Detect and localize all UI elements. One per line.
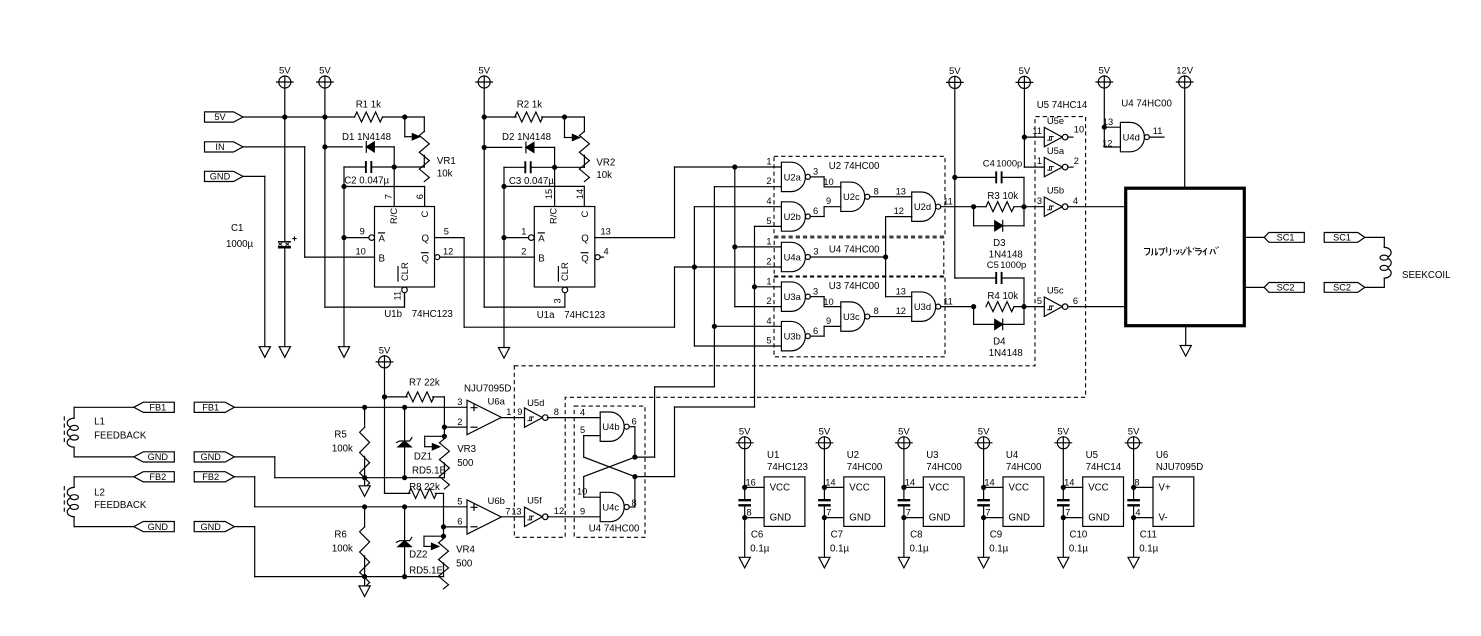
connector GND fb1 — [134, 452, 175, 462]
junction — [282, 114, 287, 119]
svg-text:10: 10 — [577, 487, 587, 497]
svg-text:A: A — [379, 234, 386, 245]
svg-text:SC1: SC1 — [1277, 233, 1295, 243]
wire — [404, 507, 406, 540]
svg-text:11: 11 — [943, 296, 953, 306]
wire — [443, 397, 445, 436]
svg-text:U2: U2 — [847, 450, 859, 461]
svg-text:U5d: U5d — [527, 397, 544, 408]
wire — [824, 486, 843, 488]
svg-text:74HC123: 74HC123 — [412, 309, 453, 320]
svg-text:14: 14 — [905, 478, 915, 488]
wire — [364, 407, 366, 427]
wire — [955, 277, 996, 279]
wire rail1 — [275, 477, 445, 479]
svg-text:14: 14 — [1064, 478, 1074, 488]
svg-text:7: 7 — [505, 507, 510, 517]
svg-text:U5b: U5b — [1047, 185, 1064, 196]
wire — [745, 517, 764, 519]
wire — [904, 486, 923, 488]
wire pin6 — [424, 187, 426, 207]
svg-text:7: 7 — [1065, 508, 1070, 518]
resistor R4 10k — [986, 302, 1014, 312]
zener DZ1 RD5.1E — [397, 438, 412, 447]
junction — [501, 235, 506, 240]
wire — [384, 368, 386, 494]
svg-text:U3d: U3d — [914, 301, 931, 312]
wire CLR — [404, 293, 406, 307]
svg-text:R8 22k: R8 22k — [409, 482, 440, 493]
power 5V — [317, 66, 334, 89]
wire — [983, 487, 985, 500]
nand U4a — [781, 242, 810, 271]
wire — [433, 396, 445, 398]
wire — [744, 518, 746, 558]
junction — [883, 254, 888, 259]
wire — [824, 306, 841, 308]
svg-text:Q: Q — [581, 234, 589, 245]
wire — [1134, 517, 1153, 519]
wire FB2 row — [255, 506, 467, 508]
potentiometer VR1 10k — [419, 131, 429, 181]
svg-text:Q: Q — [422, 253, 429, 264]
wire — [734, 167, 736, 307]
svg-text:2: 2 — [766, 257, 771, 267]
svg-text:2: 2 — [1074, 156, 1079, 166]
svg-text:C: C — [419, 211, 430, 218]
junction — [822, 515, 827, 520]
svg-text:5V: 5V — [978, 426, 990, 437]
inductor L1 — [64, 416, 78, 447]
wire Qbar4 stub — [600, 256, 603, 258]
svg-text:13: 13 — [601, 227, 611, 237]
junction — [981, 485, 986, 490]
wire — [504, 185, 584, 187]
svg-text:3: 3 — [813, 286, 818, 296]
svg-text:8: 8 — [554, 407, 559, 417]
label A bar — [379, 233, 386, 245]
svg-text:VCC: VCC — [929, 482, 949, 493]
wire U4a out — [810, 256, 885, 258]
svg-text:500: 500 — [456, 559, 473, 570]
wire CLR a — [564, 293, 566, 307]
svg-text:FEEDBACK: FEEDBACK — [94, 430, 147, 441]
svg-text:U4b: U4b — [602, 421, 619, 432]
svg-text:5V: 5V — [739, 426, 751, 437]
junction — [402, 114, 407, 119]
wire — [675, 166, 782, 168]
wire — [584, 435, 601, 437]
junction — [402, 475, 407, 480]
resistor R2 1k — [515, 112, 543, 122]
wire — [423, 536, 425, 546]
wire — [983, 506, 985, 518]
nand U3c — [841, 302, 870, 331]
wire — [823, 207, 825, 217]
IC group U5 74HC14 outline — [514, 117, 1085, 538]
capacitor C1 1000u — [278, 236, 297, 247]
svg-text:74HC123: 74HC123 — [767, 462, 808, 473]
ground — [359, 586, 370, 597]
junction — [1131, 515, 1136, 520]
IC power U5 74HC14 — [1083, 477, 1124, 527]
capacitor C5 1000p — [996, 272, 1001, 284]
diode D1 1N4148 — [366, 142, 374, 153]
inverter U5f — [525, 494, 549, 526]
svg-text:11: 11 — [392, 291, 402, 301]
wire — [554, 167, 556, 206]
wire — [1133, 506, 1135, 518]
junction — [1061, 485, 1066, 490]
svg-text:3: 3 — [457, 397, 462, 407]
wire wiper — [424, 543, 439, 549]
IC power U4 74HC00 — [1003, 477, 1044, 527]
wire — [385, 396, 408, 398]
svg-text:A: A — [538, 234, 545, 245]
wire driver gnd — [1185, 327, 1187, 345]
wire — [654, 387, 656, 457]
potentiometer VR2 10k — [579, 131, 589, 181]
wire — [1063, 486, 1082, 488]
svg-text:B: B — [538, 253, 544, 264]
wire — [343, 238, 345, 347]
svg-text:SC1: SC1 — [1333, 233, 1351, 243]
svg-text:5V: 5V — [949, 66, 961, 77]
svg-text:10: 10 — [356, 246, 366, 256]
svg-text:D4: D4 — [993, 337, 1006, 348]
wire — [443, 463, 445, 478]
pin A bubble — [529, 235, 535, 241]
label CLR bar — [398, 262, 410, 281]
potentiometer VR3 500 — [439, 439, 449, 489]
wire — [974, 206, 986, 208]
svg-text:R7 22k: R7 22k — [409, 378, 440, 389]
svg-text:U1: U1 — [767, 450, 779, 461]
svg-text:U3 74HC00: U3 74HC00 — [829, 281, 880, 292]
wire — [810, 335, 824, 337]
junction — [562, 114, 567, 119]
capacitor C8 0.1u — [898, 500, 911, 505]
wire — [404, 293, 406, 307]
svg-text:2: 2 — [521, 246, 526, 256]
wire — [74, 476, 134, 478]
svg-text:5V: 5V — [1128, 426, 1140, 437]
label Qbar a — [581, 253, 588, 265]
svg-text:6: 6 — [632, 416, 637, 426]
wire — [694, 206, 781, 208]
svg-text:13: 13 — [896, 286, 906, 296]
wire — [1062, 487, 1064, 500]
wire pin14 — [583, 186, 585, 206]
svg-text:GND: GND — [929, 513, 951, 524]
svg-text:C9: C9 — [990, 529, 1002, 540]
wire U5b out — [1068, 206, 1124, 208]
wire — [254, 477, 256, 507]
svg-text:FB1: FB1 — [202, 403, 219, 413]
wire — [955, 176, 996, 178]
connector GND fb2 — [134, 522, 175, 532]
svg-text:0.1µ: 0.1µ — [1139, 543, 1158, 554]
ground blk U5 — [1058, 557, 1069, 568]
connector SC1 — [1264, 233, 1304, 243]
junction — [442, 425, 447, 430]
svg-text:U5 74HC14: U5 74HC14 — [1037, 100, 1088, 111]
wire — [583, 155, 585, 167]
connector FB2 — [134, 472, 175, 482]
svg-text:Q: Q — [422, 234, 430, 245]
wire U5d out — [547, 417, 600, 419]
wire — [555, 166, 585, 168]
connector SC1 b — [1324, 233, 1365, 243]
svg-text:1: 1 — [766, 157, 771, 167]
full bridge driver block — [1126, 188, 1245, 326]
wire — [824, 186, 841, 188]
diode D3 1N4148 — [995, 221, 1003, 232]
op-amp U6b — [467, 496, 505, 534]
wire — [435, 492, 443, 494]
wire — [1133, 518, 1135, 558]
svg-text:74HC00: 74HC00 — [1006, 462, 1042, 473]
svg-text:R4 10k: R4 10k — [987, 291, 1018, 302]
wire — [424, 535, 444, 537]
wire — [443, 563, 445, 577]
wire 12V — [1184, 88, 1186, 187]
svg-text:GND: GND — [849, 513, 871, 524]
junction — [362, 405, 367, 410]
wire — [1062, 518, 1064, 558]
svg-text:2: 2 — [766, 176, 771, 186]
wire latch fb1 — [635, 456, 655, 458]
svg-text:U3b: U3b — [784, 331, 801, 342]
wire — [1383, 237, 1385, 247]
svg-text:U2c: U2c — [843, 191, 860, 202]
svg-text:U4 74HC00: U4 74HC00 — [1121, 99, 1172, 110]
svg-text:3: 3 — [553, 298, 563, 303]
svg-text:4: 4 — [766, 196, 771, 206]
svg-text:GND: GND — [200, 452, 221, 462]
svg-text:0.1µ: 0.1µ — [830, 543, 849, 554]
svg-text:7: 7 — [826, 508, 831, 518]
svg-text:7: 7 — [906, 508, 911, 518]
wire — [1383, 278, 1385, 287]
svg-text:5V: 5V — [1057, 426, 1069, 437]
power 5V — [476, 66, 493, 89]
svg-text:U5a: U5a — [1047, 145, 1065, 156]
power 5V blk U5 — [1055, 426, 1072, 449]
wire latch fb2 — [635, 476, 675, 478]
IC U1b 74HC123 — [375, 207, 435, 288]
wire — [634, 477, 636, 507]
pin Qbar bubble — [595, 255, 600, 260]
svg-text:Q: Q — [581, 253, 588, 264]
svg-text:8: 8 — [874, 186, 879, 196]
svg-text:0.1µ: 0.1µ — [989, 543, 1008, 554]
svg-text:R3 10k: R3 10k — [987, 191, 1018, 202]
wire rail2 — [255, 576, 444, 578]
ground blk U1 — [739, 557, 750, 568]
svg-text:U6: U6 — [1156, 450, 1168, 461]
svg-text:GND: GND — [148, 452, 169, 462]
wire — [1365, 236, 1385, 238]
junction — [482, 114, 487, 119]
svg-text:10: 10 — [823, 177, 833, 187]
power 5V blk U2 — [816, 426, 833, 449]
wire — [823, 449, 825, 488]
op-amp U6a — [467, 396, 506, 434]
svg-text:100k: 100k — [332, 444, 353, 455]
IC U1a 74HC123 — [534, 207, 595, 288]
junction — [742, 515, 747, 520]
wire — [1024, 166, 1044, 168]
junction — [692, 264, 697, 269]
svg-text:74HC00: 74HC00 — [926, 462, 962, 473]
junction — [901, 515, 906, 520]
wire — [364, 577, 366, 586]
junction — [322, 144, 327, 149]
wire — [394, 166, 424, 168]
junction — [732, 164, 737, 169]
wire — [885, 217, 887, 297]
connector GND b1 — [194, 452, 234, 462]
svg-text:5V: 5V — [478, 66, 490, 77]
svg-text:4: 4 — [766, 316, 771, 326]
svg-text:R6: R6 — [334, 530, 346, 541]
svg-text:U4a: U4a — [784, 251, 802, 262]
nand U2b — [781, 202, 810, 231]
wire — [1103, 88, 1105, 147]
nand U2a — [781, 162, 810, 191]
svg-text:CLR: CLR — [559, 262, 570, 281]
nand U3d — [912, 292, 941, 321]
wire — [1134, 486, 1153, 488]
IC group U3 74HC00 — [774, 276, 945, 357]
wire — [405, 116, 425, 118]
inductor L2 — [64, 486, 78, 517]
svg-text:C4: C4 — [983, 158, 995, 169]
zener DZ2 RD5.1E — [397, 537, 412, 546]
wire — [714, 325, 781, 327]
connector 5V — [205, 112, 244, 122]
svg-text:U1a: U1a — [537, 310, 555, 321]
wire U2d out — [941, 206, 974, 208]
wire — [73, 517, 75, 527]
junction — [971, 304, 976, 309]
ground blk U3 — [898, 557, 909, 568]
wire — [735, 246, 782, 248]
svg-text:1000µ: 1000µ — [226, 239, 254, 250]
svg-text:500: 500 — [457, 458, 474, 469]
svg-text:13: 13 — [896, 186, 906, 196]
svg-text:11: 11 — [1032, 126, 1042, 136]
power 5V — [277, 66, 294, 89]
wire 5V rail4 — [954, 88, 956, 278]
wire — [583, 436, 585, 458]
wire — [974, 225, 995, 227]
wire — [675, 266, 782, 268]
wire — [343, 187, 345, 238]
svg-text:13: 13 — [511, 507, 521, 517]
svg-text:R5: R5 — [334, 430, 346, 441]
junction — [1061, 515, 1066, 520]
wire — [1133, 487, 1135, 500]
junction — [341, 235, 346, 240]
wire — [823, 326, 825, 336]
svg-text:DZ2: DZ2 — [409, 550, 427, 561]
nand U3a — [781, 282, 810, 311]
svg-text:U4c: U4c — [602, 501, 619, 512]
wire — [1023, 278, 1025, 307]
capacitor C2 0.047u — [366, 161, 371, 173]
wire — [694, 345, 781, 347]
wire U5a out stub — [1068, 166, 1073, 168]
IC group U2 74HC00 — [774, 156, 945, 236]
resistor R8 22k — [409, 488, 437, 498]
wire 5V rail3 — [483, 88, 485, 307]
wire — [503, 167, 505, 186]
wire — [824, 206, 841, 208]
power 5V blk U1 — [736, 426, 753, 449]
svg-text:1N4148: 1N4148 — [989, 348, 1023, 359]
svg-text:FB2: FB2 — [202, 472, 219, 482]
svg-text:R2 1k: R2 1k — [517, 100, 542, 111]
connector GND b2 — [194, 522, 234, 532]
power 5V — [1096, 66, 1113, 89]
ground — [1180, 346, 1191, 357]
IC power U3 74HC00 — [923, 477, 964, 527]
svg-text:GND: GND — [1088, 513, 1110, 524]
svg-text:SC2: SC2 — [1277, 283, 1295, 293]
wire FB2 path — [234, 476, 254, 478]
svg-text:74HC123: 74HC123 — [564, 310, 605, 321]
IC power U1 74HC123 — [764, 477, 805, 527]
wire — [74, 456, 134, 458]
svg-text:5V: 5V — [819, 426, 831, 437]
wire — [583, 477, 585, 498]
svg-text:U3a: U3a — [784, 291, 802, 302]
svg-text:FEEDBACK: FEEDBACK — [94, 500, 147, 511]
wire — [404, 407, 406, 440]
svg-text:4: 4 — [1073, 196, 1078, 206]
capacitor C4 1000p — [996, 171, 1001, 183]
junction — [322, 114, 327, 119]
svg-text:L1: L1 — [94, 417, 105, 428]
wire — [823, 177, 825, 187]
svg-text:U5: U5 — [1086, 450, 1098, 461]
svg-text:D2 1N4148: D2 1N4148 — [502, 132, 551, 143]
wire — [973, 307, 975, 325]
svg-text:NJU7095D: NJU7095D — [464, 383, 511, 394]
ground — [359, 486, 370, 497]
junction — [442, 434, 447, 439]
svg-text:74HC00: 74HC00 — [847, 462, 883, 473]
wire — [903, 506, 905, 518]
diode D4 1N4148 — [995, 319, 1003, 330]
wire U6b in6 — [444, 526, 468, 528]
power 5V blk U4 — [975, 426, 992, 449]
IC power U6 NJU7095D — [1153, 477, 1194, 527]
wire GND b — [234, 526, 254, 528]
diode D2 1N4148 — [526, 142, 534, 153]
svg-text:V-: V- — [1159, 513, 1168, 524]
power 5V — [947, 66, 964, 89]
wire — [755, 286, 782, 288]
junction — [1131, 485, 1136, 490]
wire — [254, 527, 256, 577]
svg-text:5: 5 — [580, 425, 585, 435]
wire cross2 — [584, 457, 635, 477]
wire — [1014, 306, 1044, 308]
wire — [675, 406, 755, 408]
